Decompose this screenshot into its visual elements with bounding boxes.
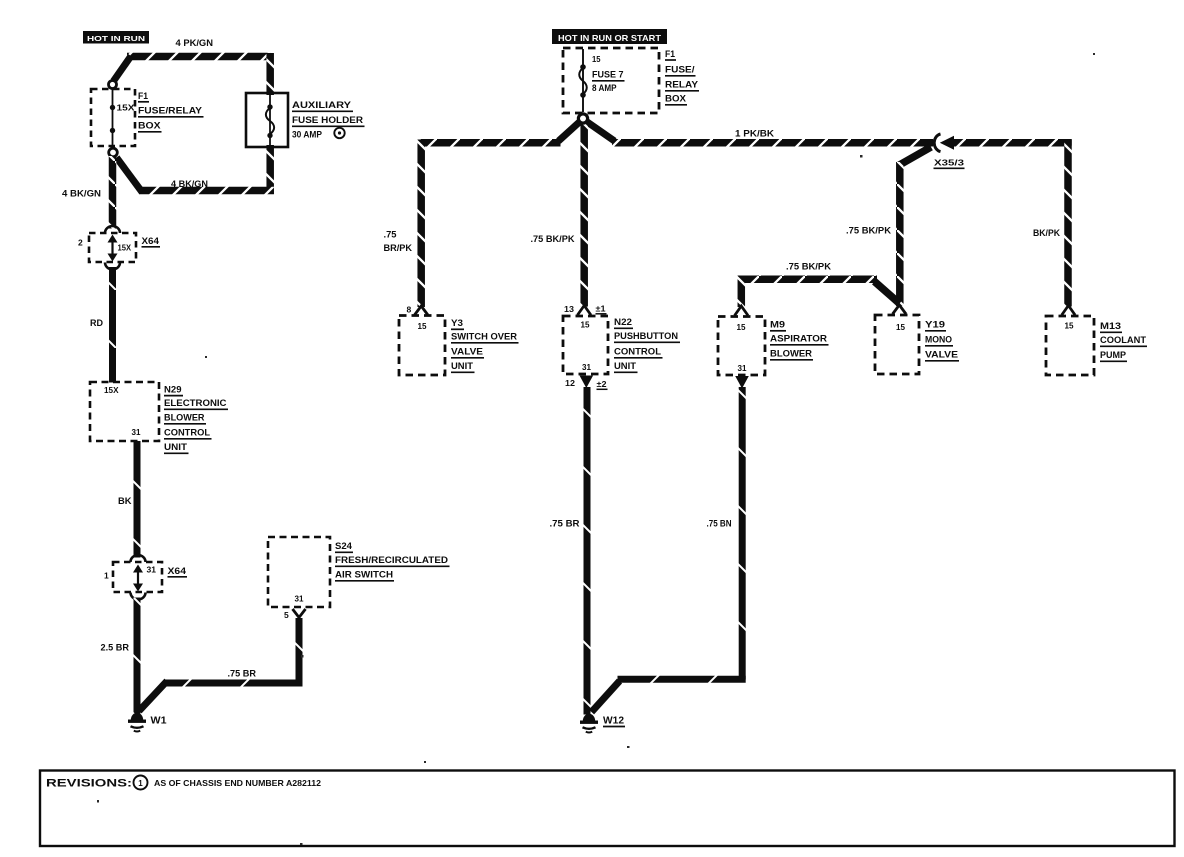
svg-text:31: 31 [295,594,304,604]
svg-text:F1: F1 [665,49,676,60]
wire RD down to N29 [109,267,116,383]
svg-text:S24: S24 [335,541,353,552]
wire diagonal node to right branch [587,122,615,142]
connector X64 pin 2 socket arc (top) [105,226,120,233]
svg-text:AUXILIARY: AUXILIARY [292,100,352,111]
power feed label HOT IN RUN OR START [552,29,667,44]
svg-text:8 AMP: 8 AMP [592,83,617,94]
svg-text:F1: F1 [138,91,149,102]
svg-text:8: 8 [407,305,412,315]
svg-text:AIR SWITCH: AIR SWITCH [335,570,393,581]
svg-text:RELAY: RELAY [665,80,699,91]
wire 1 PK/BK horizontal run to connector X35/3 [612,139,933,147]
electronic blower control unit N29 (dashed box) [90,382,159,441]
svg-text:2: 2 [78,238,83,248]
svg-text:N22: N22 [614,317,632,328]
connector fork at N22 pin 13 [578,306,591,316]
component label N29 ELECTRONIC BLOWER CONTROL UNIT [164,385,228,454]
svg-text:FUSE HOLDER: FUSE HOLDER [292,115,363,126]
component label AUXILIARY FUSE HOLDER 30 AMP [292,100,365,141]
connector label X64 [142,236,161,247]
connector X64 pin 1 socket arc (top) [131,555,146,562]
component label N22 PUSHBUTTON CONTROL UNIT [614,317,680,372]
wire diagonal from X35/3 node down to Y19 drop [899,147,932,166]
svg-text:FUSE 7: FUSE 7 [592,70,624,81]
internal bus wire inside F1 left box [112,88,114,146]
wire 2.5 BR down to ground W1 [134,598,141,714]
svg-text:FUSE/: FUSE/ [665,65,695,76]
wire .75 BN horizontal run toward ground W12 [618,676,746,683]
wire .75 BR/PK vertical down to Y3 [417,140,425,308]
component label M9 ASPIRATOR BLOWER [770,320,829,360]
svg-text:.75 BK/PK: .75 BK/PK [531,234,576,244]
fuse label FUSE 7 8 AMP [592,70,625,95]
fuse/relay box F1 (left, dashed) [91,89,135,146]
svg-text:W12: W12 [603,716,624,727]
fresh/recirculated air switch S24 (dashed box) [268,537,330,607]
svg-text:1 PK/BK: 1 PK/BK [735,129,775,139]
svg-text:15: 15 [418,321,427,331]
svg-text:.75 BR: .75 BR [228,669,257,679]
svg-text:ELECTRONIC: ELECTRONIC [164,398,227,409]
svg-text:SWITCH OVER: SWITCH OVER [451,332,517,343]
svg-text:±1: ±1 [596,305,607,314]
svg-text:UNIT: UNIT [614,361,636,372]
svg-text:CONTROL: CONTROL [164,428,210,439]
svg-text:.75 BR: .75 BR [550,519,581,529]
coolant pump M13 (dashed box) [1046,316,1094,375]
svg-text:4 BK/GN: 4 BK/GN [171,179,208,189]
svg-text:HOT IN RUN: HOT IN RUN [87,34,145,43]
fuse 7 element squiggle [579,68,587,94]
svg-text:15: 15 [1065,321,1074,331]
svg-text:31: 31 [147,566,157,575]
svg-text:15: 15 [737,322,746,332]
svg-text:M13: M13 [1100,321,1121,332]
svg-text:15X: 15X [104,386,119,395]
splice node below fuse 7 [578,114,587,123]
connector label X35/3 [934,158,965,169]
svg-text:FUSE/RELAY: FUSE/RELAY [138,106,203,117]
wire diagonal branch from ground node up to .75 BR run [139,681,167,711]
wire label .75 BR/PK [384,230,413,254]
svg-text:N29: N29 [164,385,182,396]
component label Y19 MONO VALVE [925,320,959,361]
svg-text:UNIT: UNIT [164,442,187,453]
fuse terminal dot top [267,104,272,109]
svg-text:5: 5 [284,610,289,620]
footnote marker x2 [597,380,608,389]
fuse 7 terminal dot bottom [580,92,586,98]
wire 4 BK/GN vertical down to connector X64 pin 2 [109,156,117,229]
inline connector X35/3 (socket arc + arrow) [934,134,954,152]
svg-text:4 PK/GN: 4 PK/GN [176,38,214,48]
wire .75 BR/PK horizontal run (left branch) [421,139,561,147]
wire .75 BR horizontal run to S24 [164,680,303,687]
svg-text:X64: X64 [142,236,160,247]
svg-text:COOLANT: COOLANT [1100,335,1146,346]
component label M13 COOLANT PUMP [1100,321,1147,361]
fuse 7 terminal dot top [580,64,586,70]
revisions box [40,771,1175,847]
svg-text:BLOWER: BLOWER [164,413,205,424]
svg-text:15: 15 [581,320,590,330]
connector fork at M9 pin 31 (bottom) [735,376,749,389]
svg-text:RD: RD [90,318,103,328]
svg-text:15X: 15X [117,103,135,113]
svg-text:1: 1 [138,779,143,788]
auxiliary fuse holder box (solid) [246,93,288,147]
ground W12 [580,714,598,733]
wire vertical stub down to M9 pin 15 [738,276,746,308]
svg-text:30 AMP: 30 AMP [292,130,323,141]
wire 4 BK/GN bottom horizontal run [139,187,274,195]
svg-text:31: 31 [132,427,141,437]
component label F1 FUSE/RELAY BOX [138,91,204,132]
svg-text:BLOWER: BLOWER [770,349,812,360]
switch over valve unit Y3 (dashed box) [399,316,445,376]
revision footnote circled 1 [134,776,148,790]
svg-text:Y3: Y3 [451,318,463,329]
svg-text:BK/PK: BK/PK [1033,228,1060,238]
svg-text:PUSHBUTTON: PUSHBUTTON [614,331,678,342]
svg-text:ASPIRATOR: ASPIRATOR [770,334,827,345]
pushbutton control unit N22 (dashed box) [563,316,608,374]
component label Y3 SWITCH OVER VALVE UNIT [451,318,519,372]
connector fork at S24 pin 5 [293,609,306,618]
svg-text:FRESH/RECIRCULATED: FRESH/RECIRCULATED [335,555,448,566]
connector X64 pin 1 socket arc (bottom) [131,593,146,600]
fuse/relay box F1 (middle, dashed) [563,48,659,113]
wire 4 PK/GN drop into auxiliary fuse holder [266,53,274,95]
svg-text:VALVE: VALVE [925,350,958,361]
wire BK from N29 pin 31 down to connector X64 pin 1 [134,441,141,558]
connector fork at Y19 pin 15 [893,305,906,314]
svg-text:15X: 15X [118,244,132,253]
connector X64 pin 1 (dashed box) [113,562,162,592]
svg-text:BOX: BOX [138,121,161,132]
svg-text:MONO: MONO [925,335,952,346]
svg-text:HOT IN RUN OR START: HOT IN RUN OR START [558,33,662,43]
svg-text:Y19: Y19 [925,320,945,331]
svg-text:±2: ±2 [597,380,608,389]
svg-text:.75 BN: .75 BN [707,519,732,529]
svg-text:15: 15 [592,55,601,64]
svg-text:31: 31 [738,363,747,373]
svg-text:4 BK/GN: 4 BK/GN [62,189,101,199]
svg-text:BOX: BOX [665,94,687,105]
wire inside F1 box to fuse 7 [582,49,584,112]
wire .75 BK/PK vertical down to Y19 [896,162,904,306]
fuse element squiggle (30 AMP fuse) [266,108,274,134]
svg-text:13: 13 [564,304,574,314]
revision footnote circle symbol [334,128,344,138]
connector fork at M9 pin 15 [735,306,748,316]
wire 4 PK/GN top horizontal run [127,53,271,61]
wire inside auxiliary fuse holder [269,94,271,146]
connector X64 pin 2 socket arc (bottom) [105,263,120,270]
connector label X64 (lower) [168,566,188,577]
wire BK/PK vertical down to M13 [1064,140,1072,307]
mono valve Y19 (dashed box) [875,315,919,374]
footnote marker x1 [596,305,607,314]
svg-text:.75 BK/PK: .75 BK/PK [786,262,832,272]
svg-text:BK: BK [118,496,132,506]
svg-text:AS OF CHASSIS END NUMBER A2821: AS OF CHASSIS END NUMBER A282112 [154,778,321,788]
svg-text:VALVE: VALVE [451,347,483,358]
wire .75 BR from N22 pin 12 down to ground W12 [584,387,591,715]
svg-text:1: 1 [104,571,109,581]
wire diagonal from bottom terminal circle to 4 BK/GN run [117,158,143,193]
fuse terminal dot bottom [267,133,272,138]
wire diagonal from terminal circle up to 4 PK/GN run [114,56,132,81]
connector X64 pin 2 (dashed box) [89,233,136,262]
connector X64 pin1 double arrow symbol [133,565,143,592]
connector fork at Y3 pin 8 [415,306,428,315]
svg-text:12: 12 [565,378,575,388]
svg-text:PUMP: PUMP [1100,350,1127,361]
terminal dot 15X (upper) [110,105,115,110]
connector fork at N22 pin 12 (bottom) [580,376,594,389]
svg-text:.75: .75 [384,230,397,240]
connector X64 double arrow symbol [108,235,118,262]
ground label W12 [603,716,625,727]
svg-text:.75 BK/PK: .75 BK/PK [846,226,892,236]
wire .75 BK/PK vertical (center branch to N22) [580,120,588,307]
svg-text:31: 31 [582,362,591,372]
ground W1 [128,713,146,732]
svg-text:REVISIONS:: REVISIONS: [46,778,132,790]
svg-text:X35/3: X35/3 [934,158,964,168]
svg-text:W1: W1 [151,715,167,727]
svg-text:M9: M9 [770,320,785,331]
terminal dot (lower) [110,128,115,133]
wire .75 BN from M9 pin 31 down [739,387,746,680]
wire 1 PK/BK continuation after X35/3 [952,139,1072,147]
terminal circle (bottom of fuse/relay box F1 left) [109,148,118,157]
terminal circle (top of fuse/relay box F1 left) [109,81,117,89]
wire diagonal node to left branch [559,122,581,142]
wire 4 BK/GN drop from auxiliary fuse holder [266,145,274,194]
connector fork at M13 pin 15 [1062,306,1075,316]
wire .75 BK/PK branch horizontal run to M9 [741,276,877,284]
svg-text:X64: X64 [168,566,187,577]
wire diagonal into ground W12 [592,681,620,712]
component label F1 FUSE/RELAY BOX (middle) [665,49,699,105]
scan noise dots [97,53,1095,845]
component label S24 FRESH/RECIRCULATED AIR SWITCH [335,541,450,581]
svg-text:CONTROL: CONTROL [614,347,661,358]
wire diagonal joining Y19 drop [875,282,900,304]
power feed label HOT IN RUN [83,31,149,44]
svg-text:UNIT: UNIT [451,361,473,372]
svg-text:BR/PK: BR/PK [384,243,413,253]
svg-text:15: 15 [896,322,905,332]
svg-text:2.5 BR: 2.5 BR [101,643,130,653]
aspirator blower M9 (dashed box) [718,317,765,376]
wire vertical up to S24 pin 5 [296,618,303,687]
